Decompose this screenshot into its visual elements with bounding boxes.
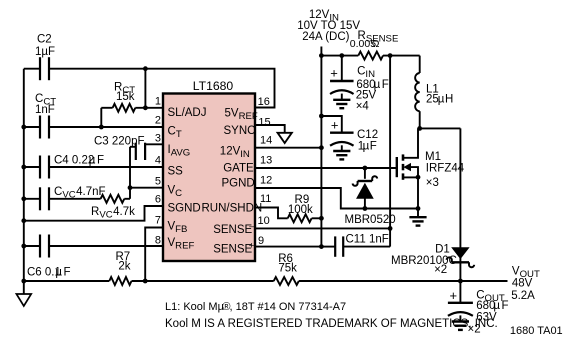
svg-text:+: +: [330, 66, 338, 81]
svg-text:SGND: SGND: [168, 203, 201, 215]
svg-text:C2: C2: [37, 34, 52, 46]
svg-text:6: 6: [155, 194, 161, 206]
svg-text:C3 220pF: C3 220pF: [94, 135, 145, 147]
svg-text:SYNC: SYNC: [224, 125, 256, 137]
svg-text:C12: C12: [357, 129, 378, 141]
svg-text:4: 4: [155, 155, 161, 167]
svg-text:16: 16: [258, 96, 270, 108]
svg-text:C6 0.1µF: C6 0.1µF: [27, 266, 71, 278]
svg-text:SENSE–: SENSE–: [213, 221, 255, 236]
svg-text:12: 12: [260, 175, 272, 187]
svg-text:15k: 15k: [116, 91, 135, 103]
svg-text:680µF: 680µF: [476, 300, 508, 312]
svg-text:×2: ×2: [434, 264, 447, 276]
svg-text:C4 0.22µF: C4 0.22µF: [54, 155, 104, 167]
svg-text:IRFZ44: IRFZ44: [426, 163, 465, 175]
svg-text:75k: 75k: [278, 263, 297, 275]
svg-text:LT1680: LT1680: [193, 79, 234, 93]
svg-text:25µH: 25µH: [426, 93, 453, 105]
svg-text:RUN/SHDN: RUN/SHDN: [202, 203, 263, 215]
svg-text:SS: SS: [168, 166, 184, 178]
svg-text:5: 5: [155, 175, 161, 187]
svg-text:0.005Ω: 0.005Ω: [350, 38, 380, 50]
svg-text:2: 2: [155, 115, 161, 127]
svg-text:PGND: PGND: [222, 178, 255, 190]
svg-text:13: 13: [260, 155, 272, 167]
svg-text:SL/ADJ: SL/ADJ: [168, 107, 207, 119]
svg-text:5.2A: 5.2A: [511, 290, 535, 302]
svg-text:48V: 48V: [512, 278, 533, 290]
svg-text:M1: M1: [425, 151, 441, 163]
svg-text:SENSE+: SENSE+: [213, 240, 255, 255]
svg-text:1: 1: [155, 95, 161, 107]
svg-text:GATE: GATE: [223, 163, 254, 175]
svg-text:×4: ×4: [356, 101, 370, 113]
svg-text:8: 8: [155, 234, 161, 246]
svg-text:7: 7: [155, 215, 161, 227]
svg-text:10: 10: [258, 215, 270, 227]
svg-text:+: +: [331, 118, 339, 133]
svg-text:24A (DC): 24A (DC): [302, 31, 349, 43]
svg-text:L1: Kool Mµ®, 18T #14 ON 77314: L1: Kool Mµ®, 18T #14 ON 77314-A7: [165, 301, 346, 313]
svg-text:×3: ×3: [426, 177, 439, 189]
svg-text:C11 1nF: C11 1nF: [346, 234, 389, 246]
svg-text:Kool M IS A REGISTERED TRADEMA: Kool M IS A REGISTERED TRADEMARK OF MAGN…: [165, 318, 498, 330]
svg-text:1680 TA01: 1680 TA01: [510, 325, 563, 337]
svg-text:1nF: 1nF: [35, 104, 55, 116]
svg-text:9: 9: [258, 235, 264, 247]
svg-text:+: +: [450, 288, 458, 303]
svg-text:1µF: 1µF: [358, 141, 377, 153]
svg-text:MBR0520: MBR0520: [345, 214, 396, 226]
svg-text:1µF: 1µF: [35, 46, 55, 58]
svg-text:2k: 2k: [118, 261, 130, 273]
svg-text:100k: 100k: [288, 204, 313, 216]
svg-text:15: 15: [258, 116, 270, 128]
svg-text:3: 3: [155, 133, 161, 145]
svg-text:14: 14: [260, 135, 272, 147]
svg-text:D1: D1: [435, 244, 450, 256]
